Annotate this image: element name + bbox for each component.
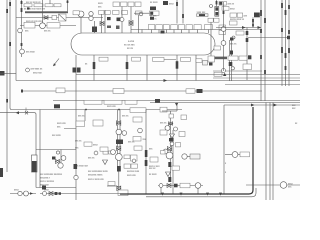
svg-text:xxxx xxx: xxxx xxx: [57, 123, 67, 125]
box with two text rows: [243, 64, 252, 70]
tall component outline: [32, 155, 38, 172]
leader line: [164, 59, 176, 61]
wire vertical x253 short: [252, 17, 254, 27]
svg-text:xxxx xxx: xxxx xxx: [107, 106, 117, 108]
arrow on y27.5: [242, 26, 246, 29]
wire drop from bubble to vessel: [80, 17, 82, 33]
wire y186 segment A: [107, 185, 117, 187]
wire cluster link: [134, 12, 150, 14]
label box row2 group: [99, 11, 105, 15]
junction dots on feed line: [85, 109, 87, 111]
box pair mid: [230, 13, 237, 17]
wire vertical x177: [176, 0, 178, 24]
svg-text:xxxx xxx: xxxx xxx: [127, 175, 137, 177]
bubble B low: [163, 149, 168, 154]
box left B: [160, 130, 167, 135]
svg-text:xx xxxx: xx xxxx: [149, 174, 157, 176]
boxes right of A stack: [124, 155, 130, 159]
small circle right: [139, 12, 143, 16]
dark component on drain line: [74, 164, 78, 169]
tall component dark fill: [32, 161, 37, 172]
svg-text:xxx xx: xxx xx: [44, 31, 51, 33]
wire vertical x223 extend: [223, 50, 225, 71]
vessel drain line x76: [75, 55, 77, 200]
valve on drop x101.5: [100, 22, 104, 26]
wire double vertical x231.5: [231, 40, 233, 81]
funnel A: [103, 160, 108, 165]
wire left bus vertical 2: [10, 0, 182, 110]
bubble right: [138, 128, 143, 133]
box right A mid: [133, 137, 141, 142]
top right: box with dark end: [219, 2, 227, 6]
svg-text:xxx xx: xxx xx: [88, 158, 95, 160]
big bubble B: [166, 152, 173, 159]
header label box h1: [148, 25, 155, 30]
valve B1: [169, 122, 173, 125]
small circles in cluster: [56, 151, 59, 154]
valve on y185.5 B: [167, 184, 171, 188]
small circle on y185.5 B: [159, 184, 163, 188]
marks B: [169, 138, 174, 141]
svg-text:xxx xx: xxx xx: [75, 141, 82, 143]
svg-text:xxx xx: xxx xx: [149, 168, 156, 170]
valve in cluster: [56, 160, 60, 164]
valve on A stack low: [117, 186, 121, 191]
junction arrow on y102.5: [175, 103, 178, 106]
tag boxes left of A bubbles: [103, 151, 108, 155]
extra tag marks on right bus: [281, 28, 283, 32]
wire vertical x224 long: [223, 105, 225, 194]
mid-left bubble x22: [20, 49, 25, 54]
wire horizontal y102.5: [150, 102, 300, 104]
wire right loop vertical x270: [269, 103, 271, 201]
instrument bubble mid right: [232, 152, 238, 158]
svg-text:xxx xx: xxx xx: [78, 116, 85, 118]
bubble on x223: [221, 27, 226, 32]
dark box on y100.5: [54, 104, 60, 108]
dark component on A stack: [117, 166, 121, 172]
tag marks on left bus: [6, 9, 8, 13]
bubble A low: [111, 150, 116, 155]
svg-text:xxxxxx xxxx: xxxxxx xxxx: [127, 171, 140, 173]
tiny circle near diamond: [232, 36, 235, 39]
wire horizontal y74.5: [76, 74, 300, 76]
wire drop x94.5: [94, 21, 96, 33]
header label box h2: [171, 25, 178, 30]
bubble line right B: [182, 154, 187, 159]
svg-text:xxxx x: xxxx x: [150, 19, 157, 21]
assembly B: label box: [160, 107, 167, 112]
stacked bubbles x91: [89, 12, 93, 16]
wire vertical x16 inner frame: [15, 0, 17, 81]
wire y185.5 B: [158, 185, 203, 187]
svg-text:xxx xx: xxx xx: [128, 142, 135, 144]
label box 2 on y25.5: [47, 23, 60, 28]
box right B mid: [179, 132, 185, 137]
bus tick 3: [206, 193, 209, 196]
tagged box right of cluster: [150, 11, 160, 16]
wire drop x105: [104, 10, 106, 33]
wire horizontal y89.5: [22, 90, 262, 92]
wire horizontal y100.5: [53, 100, 300, 102]
valve on feed pipe: [44, 16, 48, 20]
boxes right edge of header: [219, 25, 226, 29]
box below bus A: [118, 190, 128, 196]
small circle in cluster: [210, 5, 213, 8]
label box under vessel left: [153, 58, 165, 62]
circle end B: [195, 183, 201, 189]
bottom left valve set 2: [40, 193, 120, 195]
wire drop to bubble: [42, 0, 44, 23]
bus tick 1: [161, 193, 164, 196]
svg-text:xxxx xxx: xxxx xxx: [33, 73, 43, 75]
svg-text:xxxx x xxxx xxx: xxxx x xxxx xxx: [88, 179, 105, 181]
wire right loop vertical x266: [265, 103, 267, 201]
box row 2: [222, 7, 229, 11]
annotation leader arrow: [54, 59, 60, 66]
drain flange marks: [73, 68, 77, 73]
bottom bus line 2: [146, 188, 256, 197]
dark box on y185.5 B: [174, 184, 178, 188]
wire vertical x21.5: [21, 0, 23, 57]
instrument bubble x42.5: [40, 23, 46, 29]
wire vertical x183: [182, 0, 184, 24]
svg-text:xxxx x xxx: xxxx x xxx: [149, 166, 160, 168]
label box B: [181, 115, 187, 120]
small box: [230, 21, 238, 25]
svg-text:xxx xx: xxx xx: [228, 4, 235, 6]
funnel B2: [166, 172, 171, 177]
header label box h5: [194, 25, 201, 30]
svg-text:xxx xxxx: xxx xxxx: [52, 135, 62, 137]
wire vertical x177 feed: [176, 103, 178, 112]
wire y27.5: [216, 27, 261, 29]
stack valve 2: [117, 146, 121, 150]
assembly A: drop x85: [84, 110, 86, 122]
box on y74.5 left: [214, 72, 222, 76]
bus tick 4: [219, 193, 222, 196]
dark blob left of 160: [155, 99, 160, 103]
wire top-left feed pipe y17.5: [16, 17, 103, 19]
instrument bubble on feed pipe: [78, 11, 84, 17]
tiny bubble: [231, 67, 234, 70]
tiny marks above vessel: [107, 26, 111, 29]
wire horizontal y78: [213, 77, 300, 79]
assembly B double vertical: [170, 111, 172, 180]
wire horizontal y105 right with arrows: [224, 104, 300, 106]
label box row2 left: [73, 11, 80, 15]
junction arrow y80.5: [164, 79, 168, 82]
small box on B stack: [169, 114, 174, 118]
box on y89.5: [56, 88, 65, 93]
header label box h3: [179, 25, 185, 30]
wire connector A to bus: [0, 73, 16, 75]
wire right vertical bus x265: [264, 0, 266, 101]
box under x85: [76, 121, 85, 127]
stub to bus from circle161: [160, 187, 162, 194]
svg-text:xxx-xxxx xx: xxx-xxxx xx: [31, 69, 44, 71]
label box on y25.5: [24, 22, 35, 28]
wire vertical x62: [60, 150, 62, 169]
dark blob on B stack near bus: [168, 177, 171, 182]
A stack extension to bus: [118, 168, 120, 194]
top-left small box row: [24, 4, 32, 7]
box right B2: [172, 166, 180, 170]
wire vertical x216 top: [216, 0, 218, 7]
stub to bus from circle198: [197, 188, 199, 194]
tall component box: [215, 7, 219, 17]
wide label boxes on line: [84, 100, 102, 104]
svg-text:xxx xxxx: xxx xxxx: [26, 52, 36, 54]
wire bubble line y185 right: [246, 184, 300, 186]
svg-text:xxxx x xxxxxx: xxxx x xxxxxx: [40, 181, 55, 183]
bubble lower on x223: [221, 41, 226, 46]
wire vertical x211: [210, 22, 212, 56]
label box right 1: [130, 108, 146, 113]
svg-text:xxx xxxxxxxx xxxxxxx: xxx xxxxxxxx xxxxxxx: [40, 174, 63, 176]
small circle B: [170, 142, 174, 146]
box right of vessel cap: [214, 46, 221, 50]
vessel bottom nozzle 1: [93, 55, 95, 81]
wire horizontal y111: [162, 110, 177, 112]
instrument bubble right: [280, 182, 287, 189]
svg-text:xxxxxxx xxxxx: xxxxxxx xxxxx: [88, 175, 103, 177]
wire left bus vertical 1: [6, 0, 8, 172]
wire horizontal y85.5: [225, 84, 300, 86]
circle with cross: [58, 163, 63, 168]
dark marks on stack: [116, 140, 123, 145]
wire right loop vertical x273: [272, 103, 274, 201]
node left edge connector B: [0, 168, 3, 177]
tag below header: [161, 31, 165, 34]
small box upper left B low: [161, 151, 166, 155]
wire far right vertical x285.5: [285, 0, 287, 86]
tick x22 on y89.5: [21, 90, 23, 93]
label box right 2: [133, 117, 142, 122]
wire y187.5 stub: [36, 187, 76, 189]
wire drop x138.5: [138, 15, 140, 33]
bottom bus line 1 thick: [120, 107, 253, 194]
wire far right vertical x282: [281, 0, 283, 86]
vessel bottom nozzle 2: [126, 55, 128, 81]
big bubble A: [115, 154, 122, 161]
dark marks on x146 low: [145, 160, 148, 166]
mini assembly upper-left cluster: [36, 149, 76, 151]
vessel bottom nozzle 4: [195, 55, 197, 81]
svg-text:xxx xx: xxx xx: [160, 123, 167, 125]
wire far right vertical x289: [288, 0, 290, 86]
svg-text:xxx xxxxxxxxx xxxx: xxx xxxxxxxxx xxxx: [88, 171, 109, 173]
bubble pair A mid: [116, 129, 122, 135]
bowtie valve x131: [129, 21, 133, 26]
label box on y185.5 B: [180, 183, 190, 188]
small bubble in cluster: [120, 18, 124, 22]
wire vertical x67.5 stub: [67, 0, 69, 11]
very dark tag box: [254, 13, 260, 18]
vessel bottom nozzle 3: [176, 55, 178, 81]
cluster boxes near y85 right-center: [186, 89, 195, 93]
assembly A double vertical: [117, 110, 119, 169]
header line y28.75: [131, 29, 262, 31]
top center label boxes row: [113, 2, 120, 7]
wire top-left line y25.5: [20, 25, 76, 27]
bubble pair B: [165, 126, 170, 131]
wire y37.5: [248, 37, 289, 39]
wire vertical x146: [145, 110, 147, 194]
wire horizontal y71: [213, 70, 262, 72]
right cluster: dark label row: [213, 57, 227, 60]
valve on stack: [117, 121, 121, 125]
bubble left mid: [18, 28, 23, 33]
small circle right of A stack: [132, 159, 136, 163]
bus tick 2: [180, 193, 183, 196]
valve B2: [167, 147, 171, 151]
svg-text:xx xxx: xx xxx: [150, 16, 157, 18]
dark marks near vessel right: [230, 38, 234, 41]
box with cross on feed pipe: [59, 14, 67, 21]
wire vertical x36 below tall component: [35, 172, 37, 188]
wire vertical x247: [246, 28, 248, 81]
bubble on x223 line low: [222, 69, 226, 73]
box on y89.5 second: [113, 89, 124, 94]
wire drop x101.5: [101, 14, 103, 33]
svg-text:xx xx: xx xx: [127, 47, 134, 50]
vessel bottom nozzle 5: [146, 55, 148, 81]
wire drop x142: [141, 30, 143, 34]
wire vertical x223: [223, 2, 225, 50]
small component on drain line: [74, 175, 78, 179]
small box B: [176, 143, 181, 147]
box pair below cluster: [208, 18, 213, 22]
wire horizontal y112.7 with corner down: [0, 113, 36, 155]
wire vertical x50 stub: [49, 0, 51, 4]
funnel B: [170, 134, 175, 138]
header label box h4: [186, 25, 192, 30]
label box on y186 A: [108, 182, 115, 186]
bottom left valve set 1: [10, 193, 36, 195]
wire drops from header boxes to vessel: [151, 30, 153, 34]
wire drop x131: [130, 7, 132, 34]
box pair on row: [228, 56, 238, 60]
vessel V-1120 horizontal drum: [71, 33, 215, 55]
dark component on B stack low: [168, 162, 171, 167]
mid-left label cluster: [26, 68, 30, 72]
svg-text:xx xxxx: xx xxxx: [150, 2, 158, 4]
component on feed pipe: [52, 15, 57, 19]
svg-text:xxx xx: xxx xx: [122, 116, 129, 118]
header label box h6: [205, 25, 213, 30]
svg-text:xxxxxxx x: xxxxxxx x: [40, 178, 51, 180]
top-left long dark label row: [25, 11, 68, 13]
dark marks cluster: [52, 157, 56, 160]
wire double vertical x229.5: [229, 40, 231, 81]
wire right vertical bus x261: [260, 0, 262, 101]
box on y31-35: [236, 31, 244, 35]
wire vertical x40: [39, 110, 41, 188]
svg-text:xxx xx: xxx xx: [230, 44, 237, 46]
wire horizontal y81 long: [16, 80, 300, 82]
node left edge connector A: [0, 71, 5, 76]
box row A: [84, 142, 92, 146]
box pair right below cap: [208, 56, 215, 62]
box cluster x93-103: [93, 120, 103, 126]
dark box above vessel left cap: [92, 27, 97, 33]
wire drop x122: [121, 7, 123, 34]
junction arrow on y74.5: [223, 73, 226, 76]
